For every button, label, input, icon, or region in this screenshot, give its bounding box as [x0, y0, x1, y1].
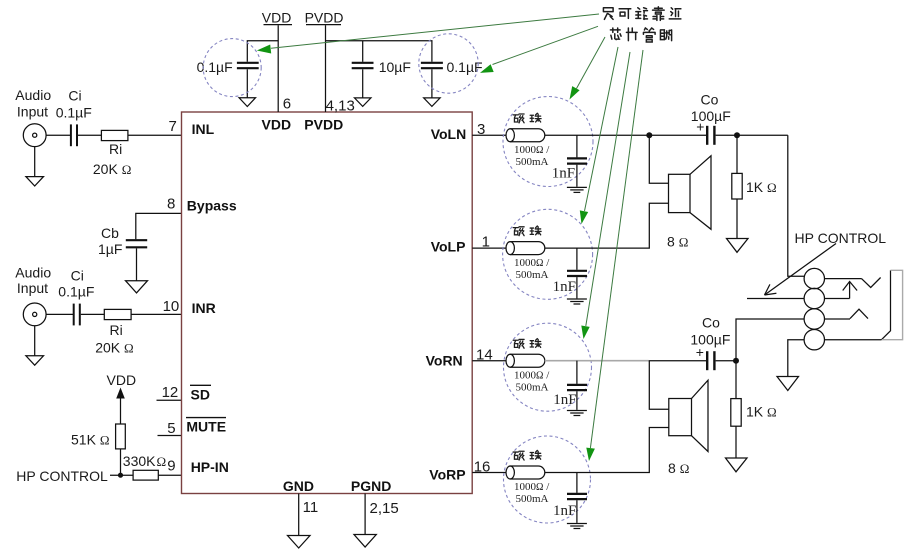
wire jack R to Ci R [46, 313, 73, 315]
wire Ci L to Ri L [78, 134, 101, 136]
jack contact ring2 (circle 3) [804, 309, 824, 329]
wire Co R to junction R [716, 360, 736, 362]
svg-text:1K Ω: 1K Ω [746, 404, 777, 420]
svg-text:INR: INR [192, 300, 216, 316]
leader line 3 to FB1 [570, 37, 606, 100]
ground below R2 [726, 458, 748, 472]
svg-text:7: 7 [169, 118, 177, 135]
ground pin 11 GND [288, 494, 311, 549]
svg-text:500mA: 500mA [516, 156, 549, 168]
ferrite bead FB3 [506, 354, 545, 367]
svg-text:1nF: 1nF [553, 279, 576, 295]
svg-text:VoRP: VoRP [429, 467, 465, 483]
wire FB1 to Co L [545, 134, 707, 136]
resistor R2 1K (right) [731, 361, 741, 458]
svg-text:Bypass: Bypass [187, 197, 237, 213]
wire R51 to VDD arrow [120, 398, 122, 425]
wire tap to Co R [649, 360, 707, 362]
svg-text:10: 10 [163, 298, 180, 315]
svg-text:1000Ω /: 1000Ω / [514, 144, 550, 156]
svg-text:HP-IN: HP-IN [191, 459, 229, 475]
wire Ri L to pin 7 [128, 134, 182, 136]
svg-text:1000Ω /: 1000Ω / [514, 257, 550, 269]
svg-text:Co: Co [702, 315, 720, 331]
resistor R330 330K [133, 470, 158, 480]
ground below Cb [126, 248, 148, 293]
connector J2 Audio Input right (RCA jack) [23, 303, 46, 326]
net label VDD (underlined) [262, 9, 292, 25]
capacitor Co R 100uF [707, 351, 714, 370]
label Audio Input (left bottom) [15, 264, 51, 296]
svg-text:VDD: VDD [262, 9, 292, 25]
capacitor C3 0.1uF (PVDD decoupling) [421, 63, 443, 68]
svg-text:VoLP: VoLP [431, 238, 466, 254]
svg-text:Input: Input [17, 280, 48, 296]
capacitor C6 1nF row3 [567, 361, 587, 410]
svg-text:51K Ω: 51K Ω [71, 431, 109, 447]
svg-text:330KΩ: 330KΩ [123, 453, 166, 469]
jack body bracket (gray part) [882, 270, 903, 339]
annotation circle around C1 [203, 39, 261, 97]
wire FB2 to speaker L bottom [545, 203, 669, 248]
svg-text:12: 12 [162, 384, 179, 401]
label cizhu (bead) row3 [513, 339, 541, 349]
label cizhu (bead) row1 [513, 113, 541, 123]
capacitor C7 1nF row4 [567, 473, 587, 523]
svg-text:0.1µF: 0.1µF [56, 104, 92, 120]
svg-text:11: 11 [303, 499, 319, 516]
svg-text:0.1µF: 0.1µF [58, 283, 94, 299]
svg-text:8 Ω: 8 Ω [667, 234, 688, 250]
label cizhu (bead) row2 [513, 226, 541, 236]
capacitor Ci R 0.1uF [74, 304, 80, 326]
wire HP junction to R51 [120, 449, 122, 475]
label 1000ohm/500mA row1 [514, 144, 550, 168]
node HP junction [118, 473, 123, 478]
svg-text:5: 5 [167, 420, 175, 437]
annotation circle around FB1 [503, 97, 593, 187]
svg-text:Ri: Ri [110, 322, 123, 338]
resistor R51 51K [116, 424, 126, 449]
svg-text:1000Ω /: 1000Ω / [514, 481, 550, 493]
label Co 100uF + (right channel) [690, 315, 730, 360]
capacitor Co L 100uF [707, 126, 714, 145]
leader line 6 to FB4 [586, 50, 643, 461]
note text line 2: xin-pian-guan-jiao [610, 28, 671, 42]
annotation arrow to HP stub [765, 244, 837, 296]
ground below jack L [26, 147, 44, 186]
annotation circle around FB3 [504, 323, 592, 411]
svg-text:1nF: 1nF [553, 392, 576, 408]
svg-text:1µF: 1µF [98, 241, 122, 257]
wire tap to speaker L top [649, 135, 668, 183]
speaker SP2 8 ohm (right channel) [669, 380, 708, 451]
wire PVDD rail to pin 4,13 [325, 25, 327, 112]
op-amp U1 amplifier IC body [182, 112, 473, 494]
svg-text:Ri: Ri [109, 141, 122, 157]
pin label SD with overline [190, 385, 211, 402]
wire FB3 to tap (gray) [545, 360, 649, 362]
ferrite bead FB1 [506, 129, 545, 142]
svg-text:10µF: 10µF [379, 59, 411, 75]
svg-text:Ci: Ci [71, 267, 84, 283]
svg-text:2,15: 2,15 [370, 500, 399, 517]
capacitor C1 0.1uF (VDD decoupling) [237, 63, 259, 68]
capacitor Cb 1uF [126, 240, 147, 247]
connector J1 Audio Input left (RCA jack) [23, 124, 46, 147]
node junction R [733, 358, 739, 364]
ground below jack [777, 377, 799, 391]
svg-text:PVDD: PVDD [304, 116, 343, 132]
ground below C1 [239, 69, 255, 106]
jack switch contact 1 [825, 278, 881, 288]
svg-text:Cb: Cb [101, 225, 119, 241]
ground below jack R [26, 326, 44, 365]
svg-text:20K Ω: 20K Ω [95, 339, 133, 355]
wire VDD rail to pin 6 [277, 25, 279, 112]
svg-text:500mA: 500mA [516, 269, 549, 281]
label Cb 1uF [98, 225, 122, 257]
wire pin 14 to bead FB3 [472, 360, 506, 362]
ground below C2 [355, 69, 371, 106]
svg-text:SD: SD [191, 386, 210, 402]
wire pin 8 Bypass [136, 213, 182, 239]
wire sleeve to body [825, 339, 882, 341]
svg-text:8 Ω: 8 Ω [668, 460, 689, 476]
pin label MUTE with overline [186, 418, 226, 435]
wire Co L to junction [716, 134, 788, 136]
wire jack L to Ci L [46, 134, 71, 136]
wire Ri R to pin 10 [131, 313, 181, 315]
svg-text:GND: GND [283, 478, 314, 494]
wire pin 16 to bead FB4 [472, 472, 506, 474]
svg-text:1K Ω: 1K Ω [746, 179, 777, 195]
svg-text:+: + [696, 119, 704, 135]
wire R330 to pin 9 [158, 474, 181, 476]
jack contact tip (circle 1) [804, 268, 824, 288]
label 1000ohm/500mA row2 [514, 257, 550, 281]
wire VDD rail to C1 [247, 41, 278, 62]
node junction L [734, 132, 740, 138]
svg-text:0.1µF: 0.1µF [197, 59, 233, 75]
svg-text:500mA: 500mA [516, 381, 549, 393]
resistor R1 1K (left) [732, 135, 742, 238]
svg-text:Input: Input [17, 104, 48, 120]
svg-text:INL: INL [192, 121, 215, 137]
resistor Ri L 20K [101, 130, 128, 140]
wire FB4 to speaker R bottom [545, 428, 669, 473]
svg-text:PVDD: PVDD [305, 9, 344, 25]
jack body bracket (black part) [882, 270, 891, 339]
wire PVDD rail to C2/C3 [326, 41, 432, 62]
label Ri 20K ohm (bottom) [95, 322, 133, 355]
svg-text:MUTE: MUTE [186, 419, 226, 435]
ground below R1 [727, 239, 749, 253]
svg-text:20K Ω: 20K Ω [93, 161, 131, 177]
capacitor C4 1nF row1 [567, 135, 587, 187]
capacitor Ci L 0.1uF [71, 124, 77, 146]
earth ground row3 [567, 411, 587, 416]
power VDD arrow [116, 388, 125, 399]
svg-text:+: + [696, 344, 704, 360]
wire HP CONTROL to R330 [110, 474, 133, 476]
jack switch arrow (plug actuation) [825, 282, 858, 299]
pin stub MUTE (5) [158, 435, 182, 437]
label Ri 20K ohm (top) [93, 141, 131, 177]
speaker SP1 8 ohm (left channel) [669, 156, 712, 230]
wire sleeve to ground [788, 340, 804, 377]
svg-text:Audio: Audio [15, 87, 51, 103]
label Ci 0.1uF (top) [56, 88, 92, 121]
ferrite bead FB2 [506, 242, 545, 255]
wire pin 1 to bead FB2 [472, 247, 506, 249]
node tap L speaker [646, 132, 652, 138]
svg-text:Audio: Audio [15, 264, 51, 280]
wire Ci R to Ri R [81, 313, 105, 315]
wire tap to speaker R top [649, 361, 669, 410]
jack switch contact 3 [825, 309, 869, 319]
note text line 1: jin-ke-neng-kao-jin [603, 7, 680, 21]
annotation circle around FB4 [504, 436, 591, 523]
annotation circle around C3 [419, 34, 478, 93]
svg-text:HP CONTROL: HP CONTROL [16, 468, 108, 484]
net label PVDD (underlined) [305, 9, 344, 25]
svg-text:8: 8 [167, 196, 175, 213]
svg-text:Ci: Ci [68, 88, 81, 104]
label 1000ohm/500mA row4 [514, 481, 550, 505]
leader line 1 to C1 [257, 14, 599, 54]
leader line 5 to FB3 [581, 52, 630, 339]
pin stub SD (12) [157, 399, 182, 401]
annotation circle around FB2 [503, 209, 593, 299]
label 1000ohm/500mA row3 [514, 369, 550, 393]
svg-text:500mA: 500mA [516, 493, 549, 505]
svg-text:PGND: PGND [351, 478, 391, 494]
resistor Ri R 20K [104, 309, 131, 319]
ground below C3 [424, 69, 440, 106]
wire junction L to jack tip [788, 135, 805, 276]
svg-text:Co: Co [701, 91, 719, 107]
earth ground row4 [567, 524, 587, 529]
jack contact sleeve (circle 4) [804, 330, 824, 350]
svg-text:VoRN: VoRN [426, 353, 463, 369]
label cizhu (bead) row4 [513, 450, 541, 460]
earth ground row2 [567, 299, 587, 304]
label Ci 0.1uF (bottom) [58, 267, 94, 299]
capacitor C5 1nF row2 [567, 248, 587, 298]
svg-text:VDD: VDD [107, 372, 137, 388]
svg-text:VoLN: VoLN [431, 126, 467, 142]
capacitor C2 10uF [352, 41, 374, 68]
ground pin 2,15 PGND [354, 494, 376, 548]
svg-text:HP CONTROL: HP CONTROL [795, 230, 887, 246]
wire HP control stub to jack ring2 [747, 298, 804, 300]
ferrite bead FB4 [506, 466, 545, 479]
jack contact ring (circle 2) [804, 288, 824, 308]
wire junction R up to jack ring [736, 319, 804, 361]
svg-text:6: 6 [283, 95, 291, 112]
label Co 100uF + (left channel) [691, 91, 731, 134]
earth ground row1 [567, 187, 587, 192]
svg-text:4,13: 4,13 [326, 97, 355, 114]
svg-text:0.1µF: 0.1µF [447, 59, 483, 75]
wire pin 3 to bead FB1 [472, 134, 506, 136]
svg-text:1000Ω /: 1000Ω / [514, 369, 550, 381]
svg-text:1nF: 1nF [552, 165, 575, 181]
leader line 2 to C3 [480, 26, 598, 73]
label Audio Input (left top) [15, 87, 51, 120]
svg-text:VDD: VDD [262, 116, 292, 132]
leader line 4 to FB2 [580, 47, 618, 224]
svg-text:9: 9 [167, 457, 175, 474]
svg-text:1nF: 1nF [553, 503, 576, 519]
